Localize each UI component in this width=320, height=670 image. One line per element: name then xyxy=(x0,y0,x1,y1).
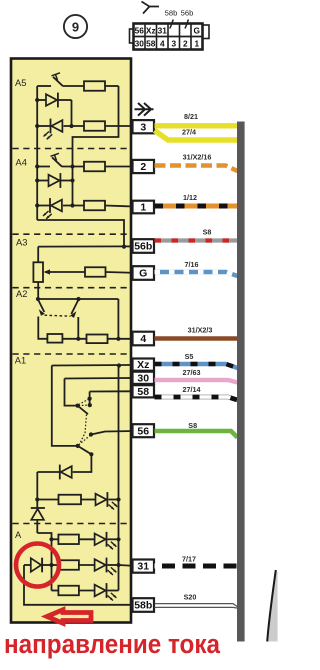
red direction arrow xyxy=(47,610,91,624)
switch S-A1a lever xyxy=(78,406,89,415)
svg-text:A2: A2 xyxy=(16,289,27,299)
resistor A R10 xyxy=(58,586,79,596)
wire 30 corner to hinge xyxy=(65,379,78,406)
wire A row3 xyxy=(52,590,59,592)
wire 27/14 (white/black) xyxy=(155,397,238,400)
node A2 right xyxy=(116,337,120,341)
svg-text:S8: S8 xyxy=(188,421,197,430)
resistor A5 R1 xyxy=(84,81,105,91)
svg-text:S5: S5 xyxy=(185,352,194,361)
svg-text:56: 56 xyxy=(137,425,149,437)
diode A1 VD3 xyxy=(59,465,61,480)
svg-text:2: 2 xyxy=(183,39,188,49)
lower cluster dotted throw xyxy=(79,436,90,445)
svg-text:1/12: 1/12 xyxy=(183,193,197,202)
node A4 LED row xyxy=(35,203,39,207)
node A4 diode row xyxy=(35,178,39,182)
svg-text:S8: S8 xyxy=(203,228,212,237)
A4 switch wire right xyxy=(62,166,84,168)
wire S20 (white outlined) xyxy=(155,604,241,609)
node lever2 hinge xyxy=(76,297,80,301)
wire R2 to terminal 3 xyxy=(105,125,133,127)
wire R5 to node xyxy=(62,338,86,340)
node A2 resistor row xyxy=(76,337,80,341)
svg-text:4: 4 xyxy=(160,39,165,49)
diode A1 LED HL3 xyxy=(96,494,107,506)
resistor A4 R1 xyxy=(84,162,105,172)
A4 switch wire left xyxy=(37,166,50,168)
svg-text:30: 30 xyxy=(137,372,149,384)
wire A feed corner xyxy=(37,533,51,539)
svg-text:8/21: 8/21 xyxy=(184,112,198,121)
svg-text:56b: 56b xyxy=(134,241,152,253)
svg-text:направление тока: направление тока xyxy=(4,629,220,659)
wire lever1 contact xyxy=(38,317,47,339)
svg-text:58b: 58b xyxy=(165,9,178,18)
switch module housing (yellow) xyxy=(11,59,131,623)
center vertical wire xyxy=(51,539,53,590)
wire lever2 contact xyxy=(77,317,79,339)
node A5 drop joins LED row xyxy=(69,124,73,128)
diode A4 VD2 xyxy=(49,175,60,187)
svg-text:7/17: 7/17 xyxy=(182,555,196,564)
terminal G xyxy=(133,266,155,280)
diode A5 VD1 xyxy=(46,94,57,106)
node A5 diode row xyxy=(35,98,39,102)
svg-text:31/X2/16: 31/X2/16 xyxy=(183,153,212,162)
svg-text:31: 31 xyxy=(158,26,168,36)
svg-text:56: 56 xyxy=(135,26,145,36)
node A4 feed from A5 xyxy=(70,164,74,168)
body outline sliver xyxy=(267,570,278,642)
svg-text:2: 2 xyxy=(140,161,146,173)
resistor A4 R2 xyxy=(84,201,105,211)
wire left corner down xyxy=(36,472,38,500)
node upper hinge xyxy=(75,404,79,408)
pin tick 56b xyxy=(185,20,188,29)
A5/A4 rail wire xyxy=(36,86,38,220)
diode A LED HL4 xyxy=(95,534,106,546)
wire R6 to terminal 4 xyxy=(108,338,134,340)
node lower hinge xyxy=(76,444,80,448)
terminal 3 xyxy=(133,120,155,133)
wire A5 corner down xyxy=(73,86,119,167)
A5 switch wire left xyxy=(37,85,51,87)
A4 diode row wire xyxy=(37,180,48,182)
node A row2 left xyxy=(49,563,53,567)
section divider (dashed) xyxy=(13,148,130,150)
svg-text:9: 9 xyxy=(72,19,79,34)
wire A3 R4 to terminal G xyxy=(106,271,134,274)
terminal 58b xyxy=(133,598,155,612)
node big vertical LED row xyxy=(116,497,120,501)
svg-text:G: G xyxy=(194,26,200,36)
diode A LED HL5 xyxy=(95,559,106,571)
resistor A1 R7 xyxy=(59,495,82,505)
node A1 resistor row xyxy=(35,497,39,501)
branch symbol at connector xyxy=(142,2,160,14)
wire 1/12 (orange/black) xyxy=(155,204,238,209)
terminal 1 xyxy=(133,201,155,214)
wire resistor top lead xyxy=(37,247,39,263)
resistor A5 R2 xyxy=(84,121,105,131)
wire A4 vertical link xyxy=(72,167,74,206)
wire S5 (blue/black) xyxy=(155,364,238,368)
wire diode to left corner xyxy=(37,471,60,473)
wire diode drop xyxy=(71,100,73,126)
wire resistor row xyxy=(37,499,58,501)
svg-text:7/16: 7/16 xyxy=(185,260,199,269)
resistor A R8 xyxy=(58,535,79,545)
wire 31/X2/3 (brown) xyxy=(155,336,238,340)
section divider (dashed) xyxy=(13,353,130,355)
terminal 31 xyxy=(133,560,155,573)
switch S-A2a lever xyxy=(38,300,44,313)
wire row2 to terminal 31 xyxy=(119,564,134,567)
resistor A2 R5 xyxy=(47,334,62,343)
svg-text:A5: A5 xyxy=(15,78,26,88)
section divider (dashed) xyxy=(13,233,130,235)
wire 30 row xyxy=(65,377,134,380)
wire R1 to corner xyxy=(105,85,119,87)
svg-text:3: 3 xyxy=(171,39,176,49)
big vertical wire xyxy=(118,366,120,591)
svg-text:27/14: 27/14 xyxy=(183,385,201,394)
terminal 56 xyxy=(133,424,155,437)
svg-text:S20: S20 xyxy=(184,593,197,602)
node big vertical top xyxy=(117,363,121,367)
wiper arrow xyxy=(45,271,50,273)
wire S8 (grey/red) xyxy=(155,238,238,242)
resistor A3 R4 xyxy=(85,267,106,277)
wire Xz row xyxy=(52,364,133,367)
svg-text:30: 30 xyxy=(135,39,145,49)
node 56 contact xyxy=(89,432,93,436)
wire 27/4 (yellow) xyxy=(155,131,238,141)
switch S-A1b lever xyxy=(78,446,92,454)
svg-text:27/4: 27/4 xyxy=(182,128,196,137)
node A3 tee xyxy=(122,245,126,249)
terminal 2 xyxy=(133,160,155,173)
double chevron connector symbol xyxy=(135,103,154,116)
wire lever tip down xyxy=(73,454,92,472)
wire A2 right corner xyxy=(117,299,119,339)
svg-text:Xz: Xz xyxy=(137,359,149,371)
A5 diode row wire xyxy=(37,99,46,101)
resistor A R9 xyxy=(58,560,79,570)
terminal Xz xyxy=(133,359,155,371)
node A row1 right xyxy=(116,537,120,541)
svg-text:A1: A1 xyxy=(15,356,26,366)
resistor A3 R3 (vertical) xyxy=(33,262,43,282)
wire vertical diode leads xyxy=(36,500,38,509)
svg-text:58: 58 xyxy=(146,39,156,49)
section divider (dashed) xyxy=(13,523,130,525)
A5 LED row wire xyxy=(37,125,50,127)
terminal 30 xyxy=(133,372,155,384)
diode A VD5 (circled) xyxy=(24,564,31,566)
svg-text:31: 31 xyxy=(137,561,149,573)
wire 7/16 (blue/white) xyxy=(155,272,238,276)
svg-text:3: 3 xyxy=(140,121,146,133)
switch S-A5 lever xyxy=(53,77,63,86)
connector X left tab xyxy=(130,29,134,43)
wire A4 R2 to terminal 1 xyxy=(105,206,133,207)
A4 LED row wire xyxy=(37,205,50,207)
wire 31/X2/16 (orange/white) xyxy=(155,166,238,172)
svg-text:31/X2/3: 31/X2/3 xyxy=(188,326,213,335)
wire 27/63 (pink) xyxy=(155,380,238,383)
circled 9 callout xyxy=(64,15,87,38)
svg-text:27/63: 27/63 xyxy=(183,368,201,377)
wire S8 green xyxy=(155,431,238,438)
wire 8/21 (yellow) xyxy=(155,123,238,128)
terminal 56b xyxy=(133,239,155,253)
svg-text:A: A xyxy=(15,530,22,540)
switch S-A2b lever xyxy=(71,300,78,315)
svg-text:G: G xyxy=(139,268,147,280)
connector X body xyxy=(134,24,203,50)
node A row1 left xyxy=(49,537,53,541)
svg-text:Xz: Xz xyxy=(146,26,156,36)
diode A5 LED HL1 xyxy=(50,119,52,134)
wire 58 row xyxy=(90,390,133,392)
diode A1 VD4 (vertical, zener to A) xyxy=(31,507,45,509)
node A row2 right xyxy=(116,563,120,567)
svg-text:58b: 58b xyxy=(134,600,152,612)
wire A4 R1 to terminal 2 xyxy=(105,166,133,168)
svg-text:1: 1 xyxy=(140,202,146,214)
svg-text:1: 1 xyxy=(194,39,199,49)
terminal 58 xyxy=(133,385,155,397)
wire 56 contact to terminal 56 xyxy=(91,431,133,435)
wire wiper to resistor A3 R4 xyxy=(50,271,86,273)
node lever1 hinge xyxy=(36,297,40,301)
wire A row1 xyxy=(52,538,59,540)
connector X right tab xyxy=(203,25,210,39)
wire 7/17 (black/white) xyxy=(155,564,238,569)
upper cluster dotted throws xyxy=(79,399,89,404)
wire A row2 xyxy=(52,564,59,566)
section divider (dashed) xyxy=(13,287,130,289)
wire A left vertical xyxy=(24,565,133,605)
wire resistor bottom lead into A2 xyxy=(37,282,39,299)
wire 58 contact post xyxy=(89,392,91,406)
node A5 LED row xyxy=(35,124,39,128)
pin tick 58b xyxy=(170,20,173,29)
red highlight circle xyxy=(16,544,59,587)
node A4 switch row xyxy=(35,164,39,168)
A5 switch wire right xyxy=(63,85,84,87)
A2 top wire xyxy=(38,298,118,300)
wire Xz corner down xyxy=(52,366,78,446)
svg-text:56b: 56b xyxy=(181,9,194,18)
svg-text:4: 4 xyxy=(140,333,146,345)
svg-text:A3: A3 xyxy=(16,238,27,248)
svg-text:58: 58 xyxy=(137,386,149,398)
wire rail jog to A3 xyxy=(37,220,124,247)
harness bar xyxy=(237,122,245,642)
gang dotted vertical xyxy=(80,415,87,445)
switch S-A4 lever xyxy=(52,157,62,166)
terminal 4 xyxy=(133,332,155,346)
diode A4 LED HL2 xyxy=(49,198,51,213)
wire A3 top row to 56b xyxy=(38,245,133,247)
resistor A2 R6 xyxy=(87,335,108,344)
diode A LED HL6 xyxy=(95,585,106,597)
gang link (dashed) xyxy=(45,315,71,316)
svg-text:A4: A4 xyxy=(16,157,27,167)
